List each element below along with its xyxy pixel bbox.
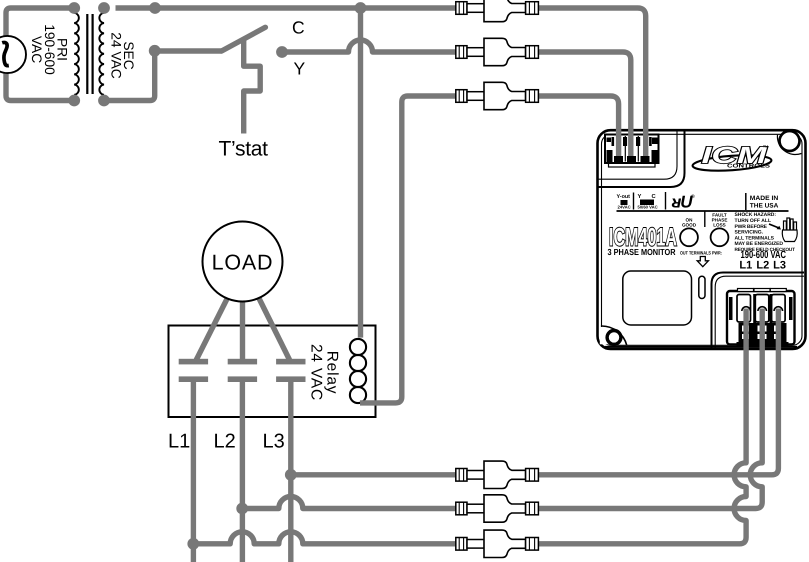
AC SOURCE (0, 36, 26, 73)
wire: relay coil top to C junction (358, 8, 363, 338)
transformer T1 primary winding (74, 13, 79, 95)
contact K3 (276, 359, 305, 365)
svg-text:L1: L1 (739, 260, 752, 272)
wire: switch feed dot to T'stat hinge (155, 48, 222, 53)
bottom-left mounting hole (600, 327, 626, 344)
OVERLAYS (612, 137, 783, 311)
wire: relay coil bottom to ICM Y-out terminal (360, 96, 619, 403)
svg-text:50/60 VAC: 50/60 VAC (638, 205, 658, 210)
hand icon (782, 218, 797, 242)
svg-text:LOSS: LOSS (713, 223, 726, 228)
wire: C top run from secondary to ICM C terminal (116, 8, 646, 159)
svg-text:®: ® (691, 194, 695, 200)
label strip: Y-out symbol (617, 192, 789, 212)
down arrow (697, 257, 708, 267)
svg-text:Relay24 VAC: Relay24 VAC (308, 344, 341, 401)
TRANSFORMER BLACK (74, 13, 104, 95)
CONTACT BARS (179, 359, 306, 382)
wire: row3 L1 to ICM L1 terminal with hops (193, 309, 746, 544)
svg-text:24VAC: 24VAC (618, 205, 631, 210)
svg-text:L2: L2 (214, 431, 236, 453)
ICM logo (692, 142, 772, 173)
wire: LOAD to contact 3 diagonal (259, 298, 290, 361)
node: Y terminal (276, 46, 288, 58)
wire: L3 phase drop (288, 380, 293, 562)
splice connector bottom row3 (456, 530, 539, 557)
splice connector top Y-out (456, 82, 539, 109)
LOAD (203, 222, 283, 302)
wire entry arcs on bottom block (742, 307, 751, 311)
svg-text:™: ™ (763, 145, 769, 152)
bottom terminal block TB2 (727, 291, 795, 345)
svg-text:GOOD: GOOD (682, 223, 697, 228)
clamp jaws on top block (612, 137, 652, 163)
node: C wire junction (149, 2, 161, 14)
svg-text:L2: L2 (756, 260, 769, 272)
svg-text:L3: L3 (773, 260, 786, 272)
splice connector bottom row2 (456, 495, 539, 522)
svg-text:LOAD: LOAD (212, 251, 274, 275)
slot (699, 276, 705, 298)
rule under label strip (617, 210, 789, 212)
svg-text:Y: Y (294, 59, 306, 79)
top terminal block TB1 (605, 135, 659, 164)
svg-text:OUT TERMINALS PWR:: OUT TERMINALS PWR: (680, 251, 722, 257)
wire: secondary bottom to corner up to switch feed dot (104, 51, 155, 101)
top-right inner bevel arc (777, 135, 801, 155)
AC source V1 (0, 36, 26, 73)
bottom-left label area (623, 271, 692, 325)
wire: L1 phase drop (191, 380, 196, 562)
wire: LOAD to contact 2 (240, 300, 245, 361)
contact K1 (179, 359, 208, 365)
svg-text:MADE IN: MADE IN (750, 195, 779, 202)
svg-text:T’stat: T’stat (219, 137, 269, 160)
CONTACTOR BOX (169, 326, 376, 418)
svg-text:L1: L1 (168, 431, 190, 453)
wire: LOAD to contact 1 diagonal (196, 298, 228, 361)
wire: AC source loop to transformer primary (6, 8, 74, 101)
wire: T'stat zigzag drop (244, 39, 261, 133)
DEVICE (598, 130, 806, 349)
splice connector top Y (456, 38, 539, 65)
contact K2 (228, 359, 257, 365)
wire: L2 phase drop (240, 380, 245, 562)
splice connector bottom row1 (456, 461, 539, 488)
wire: T'stat blade (222, 27, 266, 51)
bottom-right terminal housing (712, 273, 805, 349)
svg-text:Y-out: Y-out (617, 194, 631, 200)
caution text block (735, 212, 796, 252)
ICM401A monitor U1 body (598, 130, 806, 349)
svg-text:Y: Y (638, 194, 642, 200)
svg-text:L3: L3 (263, 431, 285, 453)
lower hardware (739, 323, 787, 342)
node: L3 tap (285, 469, 297, 481)
node: L1 tap (187, 538, 199, 550)
node: primary bottom (68, 95, 80, 107)
wire: Y run from T'stat to ICM Y terminal with hop (282, 40, 631, 159)
svg-text:C: C (292, 18, 305, 38)
svg-text:3 PHASE MONITOR: 3 PHASE MONITOR (608, 247, 677, 257)
splice connector top C (456, 0, 539, 22)
contactor box outline (169, 326, 376, 418)
transformer T1 secondary winding (99, 13, 104, 95)
spade cells (737, 295, 751, 323)
relay coil (24 VAC relay) (350, 339, 366, 403)
svg-text:CONTROLS: CONTROLS (727, 164, 770, 170)
transformer T1 core (86, 14, 88, 94)
node: secondary bottom (98, 95, 110, 107)
CONNECTORS (456, 0, 539, 558)
svg-text:THE USA: THE USA (750, 203, 779, 210)
top-left terminal housing ledge (598, 131, 685, 187)
wire: row1 L3 to ICM L3 terminal (291, 309, 779, 475)
node: coil top tap on C wire (355, 2, 367, 14)
load M1 circle (203, 222, 283, 302)
node: primary top (68, 2, 80, 14)
arrow to hand (769, 224, 779, 228)
top-right mounting hole (780, 131, 800, 151)
wire: row2 L2 to ICM L2 terminal with hops (242, 309, 762, 509)
node: switch feed (149, 45, 161, 57)
node: L2 tap (236, 503, 248, 515)
node: secondary top (98, 2, 110, 14)
